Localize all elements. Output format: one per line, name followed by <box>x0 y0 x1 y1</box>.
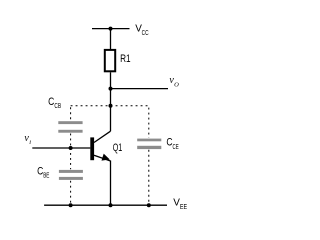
svg-text:i: i <box>29 139 31 146</box>
svg-text:C: C <box>48 96 54 108</box>
svg-text:CC: CC <box>142 30 149 37</box>
svg-text:R1: R1 <box>120 53 131 65</box>
svg-text:O: O <box>174 82 179 89</box>
svg-text:BE: BE <box>43 172 49 179</box>
svg-text:CB: CB <box>54 103 61 110</box>
svg-text:EE: EE <box>180 204 187 211</box>
svg-text:Q1: Q1 <box>113 142 123 154</box>
svg-text:CE: CE <box>173 144 179 151</box>
